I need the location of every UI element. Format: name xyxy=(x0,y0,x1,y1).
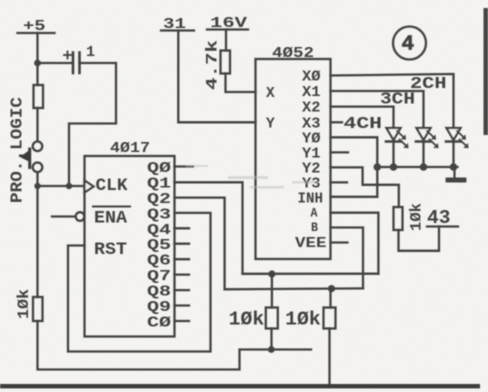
label 3CH xyxy=(380,91,415,110)
wire R-4.7k to X pin xyxy=(226,74,256,93)
wire Q2 to line B xyxy=(175,198,225,290)
label 4CH xyxy=(344,115,383,134)
resistor R-top body xyxy=(34,85,44,108)
pin stub Q7 xyxy=(175,273,190,275)
node junction +5/cap xyxy=(34,60,41,67)
wire ENA stub xyxy=(52,215,76,217)
node junction bus/Y0/INH xyxy=(374,163,382,171)
wire resistor to jumper top pin xyxy=(36,108,38,141)
label 2CH xyxy=(410,75,447,94)
net 43 label xyxy=(427,207,451,229)
wire line B (Q2 / R2 / pin B) xyxy=(225,287,363,290)
pin stub Y1 xyxy=(331,151,349,153)
node junction bus/LED3 xyxy=(450,163,458,171)
wire R2 top xyxy=(329,289,331,308)
power +5 rail bar xyxy=(18,32,55,34)
pin label RST xyxy=(94,240,127,260)
capacitor C1 polarity plus xyxy=(64,52,71,59)
pin stub Q4 xyxy=(175,227,190,229)
resistor R1 10k body xyxy=(266,308,278,329)
capacitor C1 value 1 xyxy=(86,44,95,61)
wire LED cathode bus xyxy=(376,166,458,168)
wire R1 top xyxy=(271,274,273,308)
label 10k (R3, rotated) xyxy=(408,203,426,231)
wire R1 bottom to rail xyxy=(270,329,272,350)
terminal circle bottom (PRO.LOGIC jumper) xyxy=(33,163,43,173)
label PRO. LOGIC xyxy=(8,97,27,203)
node junction bus/LED1 xyxy=(390,163,398,171)
scan artifact: bottom black bar xyxy=(0,384,480,388)
ground stub xyxy=(453,167,455,178)
LED D3 xyxy=(446,128,469,167)
pin stub Q6 xyxy=(175,258,190,260)
label 10k (R1) xyxy=(229,309,265,331)
IC U2 4052 label xyxy=(272,46,314,62)
wire RST to Q3 (via bottom) xyxy=(68,213,211,352)
pin label X xyxy=(266,86,275,102)
net 31 underline xyxy=(161,29,194,31)
wire line A (Q1 / R1 / pin A) xyxy=(243,273,379,275)
IC U2 4052 body xyxy=(256,59,331,259)
wire 31 to Y pin xyxy=(178,31,255,123)
wire Y2 to R3 top xyxy=(331,167,399,207)
wire jumper bottom to CLK junction down to R-left xyxy=(36,172,38,297)
wire Q1 to line A xyxy=(175,182,243,273)
pin stub VEE xyxy=(331,241,348,243)
node junction line A / R1 xyxy=(268,270,275,277)
wire INH to cathode bus xyxy=(331,167,378,197)
node junction rail / R1 bottom xyxy=(268,346,275,353)
pin label Y xyxy=(266,116,275,132)
pin stub Y3 xyxy=(331,181,348,183)
scan artifact: right dark bar xyxy=(484,8,488,135)
node junction bus/LED2 xyxy=(420,163,428,171)
wire Y0 to cathode bus xyxy=(331,137,378,167)
net 16V underline xyxy=(207,28,248,30)
page number circle 4 xyxy=(393,27,426,60)
net 31 label xyxy=(163,16,186,33)
power +5 label xyxy=(23,18,46,35)
LED D1 xyxy=(386,128,409,167)
wire X0 to LED3 anode xyxy=(331,74,454,128)
wire B to line B xyxy=(331,228,364,289)
pin stub Q8 xyxy=(175,289,190,291)
wire R2 bottom to page edge xyxy=(328,329,330,387)
scan noise smudges xyxy=(186,165,318,189)
ground symbol xyxy=(446,178,467,183)
resistor R-left 10k body xyxy=(33,297,43,321)
wire capacitor right plate to CLK line xyxy=(69,63,116,186)
label 10k (left, rotated) xyxy=(15,289,33,319)
LED D2 xyxy=(416,128,439,167)
pin ENA bubble xyxy=(76,212,85,221)
wire 16V to R-4.7k xyxy=(225,30,227,51)
label 4.7k (rotated) xyxy=(204,39,222,90)
resistor R-4.7k body xyxy=(221,51,231,74)
net 43 underline xyxy=(427,225,458,227)
wire X1 to LED2 anode xyxy=(331,91,424,128)
wire R3 bottom to net 43 xyxy=(399,227,440,251)
wire A to line A xyxy=(331,213,379,274)
net 16V label xyxy=(210,15,247,32)
node junction CLK tap xyxy=(34,183,40,189)
pin stub Q5 xyxy=(175,243,190,245)
pin CLK triangle xyxy=(85,181,94,193)
wire junction to capacitor left plate xyxy=(38,62,72,64)
pin labels Q0..C0 of 4017 xyxy=(147,161,171,332)
wire +5 stem down to cap junction and resistor xyxy=(36,33,38,85)
pin stub Q0 xyxy=(175,165,194,167)
node junction cap drop on CLK wire xyxy=(66,183,72,189)
wire R-left bottom to ground rail xyxy=(38,321,312,370)
switch wiper arm blob xyxy=(19,148,31,170)
capacitor C1 plates xyxy=(73,53,80,74)
wire CLK line to 4017 xyxy=(38,185,85,187)
label 10k (R2) xyxy=(285,309,321,331)
node junction line B / R2 xyxy=(328,285,335,292)
pin stub C0 xyxy=(175,320,190,322)
wire X2 to LED1 anode xyxy=(331,107,394,128)
terminal circle top (PRO.LOGIC jumper) xyxy=(33,142,43,152)
pin label ENA with overline xyxy=(94,209,128,229)
resistor R2 10k body xyxy=(324,308,336,329)
pin stub X3 xyxy=(331,121,343,123)
resistor R3 10k body xyxy=(394,207,403,230)
pin labels right side of 4052 xyxy=(295,70,327,253)
IC U1 4017 body xyxy=(85,156,175,337)
pin label CLK xyxy=(96,176,128,196)
pin stub Q9 xyxy=(175,304,190,306)
IC U1 4017 label xyxy=(110,141,150,157)
